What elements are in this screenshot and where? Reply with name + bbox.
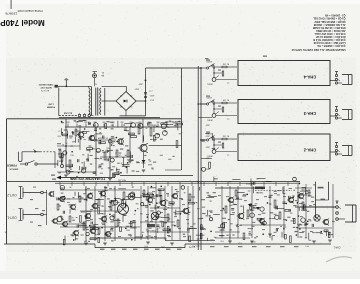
svg-text:Model 740P: Model 740P	[0, 18, 45, 27]
svg-text:ADJ R102 = 30 CW 25MA: ADJ R102 = 30 CW 25MA	[316, 29, 346, 32]
svg-text:R50-R54 = 1K 2W 5% CARB: R50-R54 = 1K 2W 5% CARB	[313, 26, 346, 29]
svg-text:12/08/76: 12/08/76	[5, 12, 17, 16]
svg-text:ALL SIG DIODES = 1N4448: ALL SIG DIODES = 1N4448	[313, 23, 345, 26]
svg-text:UNLESS NOTED: ALL RES 1/2W 5%: UNLESS NOTED: ALL RES 1/2W 5% CAPS UF	[291, 48, 346, 51]
svg-text:Q10,Q11 = MJ15003 TO-3 B: Q10,Q11 = MJ15003 TO-3 B	[313, 38, 345, 41]
svg-text:Q1-Q5 = 2N5401 TO-92 SEL: Q1-Q5 = 2N5401 TO-92 SEL	[313, 17, 346, 20]
svg-text:D10-D14 = 1N4003 1A GP: D10-D14 = 1N4003 1A GP	[315, 35, 345, 38]
svg-text:Q14,Q15 = 2N3055 + 5%: Q14,Q15 = 2N3055 + 5%	[317, 44, 346, 47]
svg-text:Q1 - 2N5401 = 4B: Q1 - 2N5401 = 4B	[325, 14, 346, 17]
svg-text:PHASE LINEAR CORP.: PHASE LINEAR CORP.	[17, 9, 43, 12]
svg-text:LAST REF = R107,C44,Q18: LAST REF = R107,C44,Q18	[313, 41, 345, 44]
svg-text:Q6,Q8 = 2N5415 SEL 300V: Q6,Q8 = 2N5415 SEL 300V	[314, 20, 345, 23]
svg-text:C40,C41 = 10UF 25V ALEL: C40,C41 = 10UF 25V ALEL	[314, 32, 346, 35]
